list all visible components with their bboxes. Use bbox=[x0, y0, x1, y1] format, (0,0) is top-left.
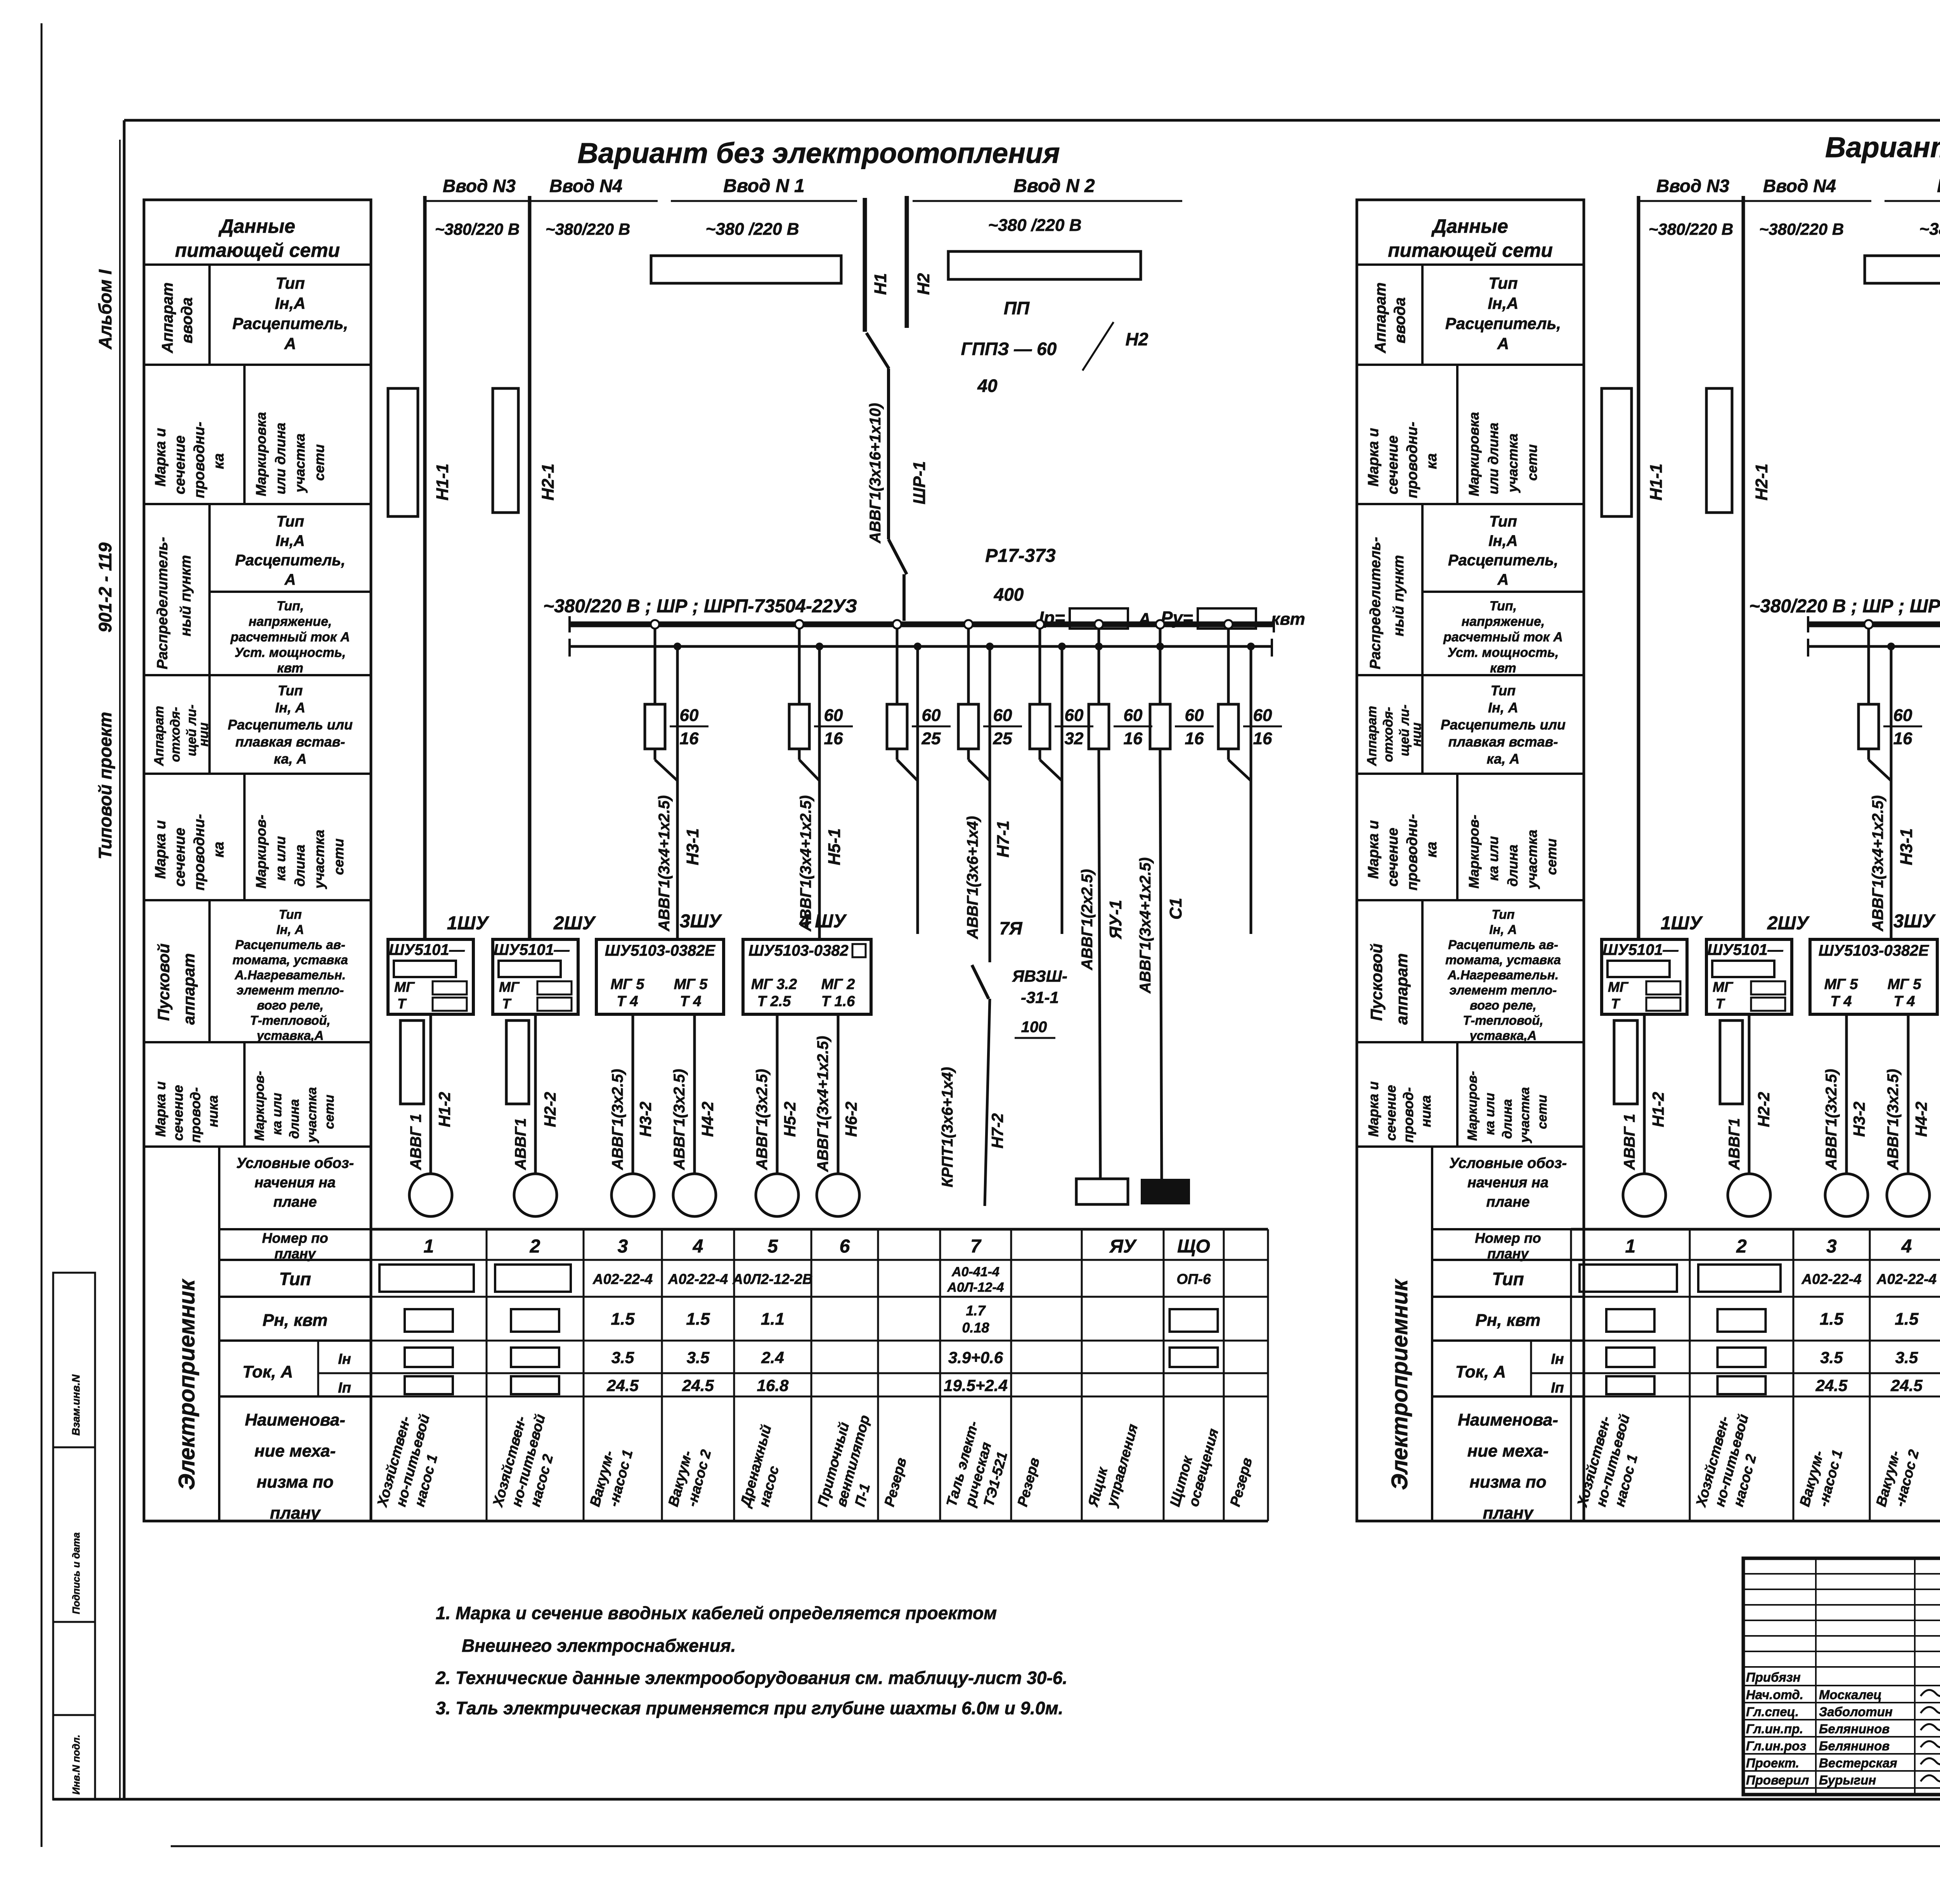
svg-text:Распределитель-: Распределитель- bbox=[1367, 537, 1384, 669]
svg-text:3.5: 3.5 bbox=[1820, 1348, 1843, 1367]
cable labels at motor drops (right half) bbox=[1621, 1036, 1940, 1187]
svg-text:А.Нагревательн.: А.Нагревательн. bbox=[1447, 968, 1559, 982]
wire: feeder drop at x=2990 bbox=[1156, 620, 1164, 704]
svg-text:длина: длина bbox=[287, 1099, 302, 1139]
svg-text:Н7-1: Н7-1 bbox=[994, 821, 1013, 858]
svg-text:Н3-2: Н3-2 bbox=[636, 1102, 655, 1137]
svg-text:начения на: начения на bbox=[1467, 1175, 1549, 1191]
title block signature names bbox=[1746, 1684, 1940, 1787]
svg-text:А02-22-4: А02-22-4 bbox=[592, 1271, 653, 1287]
svg-text:Ввод N 1: Ввод N 1 bbox=[723, 176, 804, 196]
svg-text:Ру=: Ру= bbox=[1161, 608, 1193, 628]
svg-text:уставка,А: уставка,А bbox=[256, 1028, 324, 1043]
svg-text:~380 /220 В: ~380 /220 В bbox=[706, 220, 799, 239]
svg-text:ШУ5101—: ШУ5101— bbox=[389, 941, 465, 958]
svg-text:сети: сети bbox=[331, 839, 346, 875]
svg-text:ка или: ка или bbox=[272, 836, 288, 881]
svg-text:Тип: Тип bbox=[1489, 513, 1517, 530]
svg-text:4: 4 bbox=[1901, 1236, 1912, 1257]
wire: Н1 drop bbox=[865, 198, 890, 332]
block: Электроприемник rows bbox=[1387, 1147, 1584, 1523]
row: Аппарат отходящей линии / Тип Iн,А Расцепитель или плавкая вставка bbox=[144, 675, 371, 774]
svg-text:Пусковой: Пусковой bbox=[154, 944, 173, 1021]
label: fuse rating 60/25 bbox=[983, 706, 1022, 748]
svg-text:ввода: ввода bbox=[178, 297, 196, 343]
svg-text:плану: плану bbox=[270, 1504, 321, 1523]
svg-text:Маркировка: Маркировка bbox=[253, 412, 269, 496]
svg-text:ка или: ка или bbox=[270, 1093, 284, 1135]
svg-text:16: 16 bbox=[1124, 729, 1143, 748]
svg-text:АВВГ1(3х4+1х2.5): АВВГ1(3х4+1х2.5) bbox=[814, 1036, 831, 1172]
svg-text:Iн,А: Iн,А bbox=[275, 532, 305, 549]
title block signature grid bbox=[1743, 1558, 1940, 1795]
row: Распределительный пункт / Тип Iн,А Расцепитель, А / Тип напряжение bbox=[1357, 504, 1584, 676]
svg-text:АВВГ1(2х2.5): АВВГ1(2х2.5) bbox=[1079, 869, 1096, 970]
svg-text:Расцепитель ав-: Расцепитель ав- bbox=[1448, 937, 1558, 952]
svg-text:С1: С1 bbox=[1166, 898, 1185, 920]
svg-text:Маркировка: Маркировка bbox=[1466, 412, 1482, 496]
busbar lower section bbox=[1808, 639, 1940, 657]
svg-text:плану: плану bbox=[1487, 1246, 1529, 1261]
motor M4 bbox=[673, 1174, 716, 1216]
svg-text:сечение: сечение bbox=[172, 828, 188, 887]
svg-text:томата, уставка: томата, уставка bbox=[1445, 953, 1561, 967]
svg-text:АВВГ1(3х2.5): АВВГ1(3х2.5) bbox=[1885, 1069, 1902, 1170]
svg-text:Условные обоз-: Условные обоз- bbox=[1449, 1155, 1567, 1171]
svg-text:1: 1 bbox=[424, 1236, 434, 1257]
svg-text:3: 3 bbox=[618, 1236, 628, 1257]
svg-text:Вариант с электроотоплением: Вариант с электроотоплением bbox=[1825, 131, 1940, 163]
svg-text:Номер по: Номер по bbox=[262, 1230, 328, 1246]
cable rectangle under Ввод N1 bbox=[651, 256, 841, 283]
svg-text:участка: участка bbox=[311, 830, 327, 889]
svg-text:Тип: Тип bbox=[1488, 274, 1517, 292]
svg-text:элемент тепло-: элемент тепло- bbox=[237, 983, 344, 997]
svg-text:ШУ5101—: ШУ5101— bbox=[1602, 941, 1678, 958]
svg-text:Вариант без электроотопления: Вариант без электроотопления bbox=[577, 137, 1060, 169]
svg-text:Маркиров-: Маркиров- bbox=[1465, 1071, 1480, 1141]
svg-text:Ввод N3: Ввод N3 bbox=[443, 176, 516, 196]
svg-text:7Я: 7Я bbox=[999, 918, 1023, 938]
svg-text:ШУ5103-0382: ШУ5103-0382 bbox=[748, 942, 849, 959]
svg-text:Аппарат: Аппарат bbox=[152, 706, 166, 766]
svg-text:Н2: Н2 bbox=[1126, 329, 1148, 349]
svg-text:24.5: 24.5 bbox=[1815, 1376, 1848, 1395]
receiver table Iп row values bbox=[405, 1376, 1008, 1395]
svg-text:МГ: МГ bbox=[1713, 979, 1734, 995]
svg-text:Тип: Тип bbox=[1491, 907, 1514, 922]
label: Ввод N1 bbox=[1885, 176, 1940, 239]
wire: feeder continuation x=2365 bbox=[897, 643, 921, 934]
svg-text:Н3-1: Н3-1 bbox=[683, 828, 702, 865]
svg-text:элемент тепло-: элемент тепло- bbox=[1450, 983, 1557, 997]
svg-text:А0Л2-12-2В: А0Л2-12-2В bbox=[732, 1271, 812, 1287]
svg-text:Iн, А: Iн, А bbox=[1488, 700, 1518, 716]
svg-text:плавкая встав-: плавкая встав- bbox=[1448, 734, 1558, 750]
svg-text:Марка и: Марка и bbox=[152, 428, 169, 487]
svg-text:16: 16 bbox=[1253, 729, 1272, 748]
label: Ввод N1 bbox=[671, 176, 857, 239]
cable mark rect Н1-2 bbox=[400, 1020, 424, 1104]
wire: feeder drop at x=1688 bbox=[651, 620, 659, 704]
svg-text:Взам.инв.N: Взам.инв.N bbox=[70, 1374, 82, 1436]
svg-text:КРПТ1(3х6+1х4): КРПТ1(3х6+1х4) bbox=[939, 1067, 956, 1187]
wire: feeder drop at x=2832 bbox=[1095, 620, 1103, 704]
svg-text:аппарат: аппарат bbox=[1393, 953, 1411, 1025]
svg-text:ника: ника bbox=[205, 1095, 221, 1127]
svg-text:отходя-: отходя- bbox=[168, 707, 183, 762]
svg-text:~380/220 В: ~380/220 В bbox=[546, 220, 630, 238]
svg-text:Тип: Тип bbox=[279, 1269, 311, 1289]
svg-text:АВВГ1: АВВГ1 bbox=[1726, 1118, 1743, 1170]
svg-text:Тип: Тип bbox=[278, 683, 303, 698]
svg-text:А: А bbox=[284, 571, 296, 588]
svg-text:Н7-2: Н7-2 bbox=[988, 1113, 1006, 1149]
busbar ШР upper section bbox=[1808, 616, 1940, 632]
svg-text:сечение: сечение bbox=[172, 435, 188, 494]
svg-text:3. Таль электрическая примен: 3. Таль электрическая применяется при гл… bbox=[436, 1698, 1063, 1718]
svg-text:участка: участка bbox=[1524, 830, 1540, 889]
svg-text:уставка,А: уставка,А bbox=[1469, 1028, 1537, 1043]
row: Аппарат отходящей линии / Тип Iн,А Расцепитель или плавкая вставка bbox=[1357, 675, 1584, 774]
svg-text:провод-: провод- bbox=[1400, 1087, 1416, 1143]
wire: rotated cable labels 7Я drop bbox=[964, 816, 1023, 939]
row: Марка и сечение проводника / Маркировка или длина участка сети bbox=[144, 365, 371, 504]
label: fuse rating 60/16 bbox=[1114, 706, 1152, 748]
svg-text:МГ: МГ bbox=[1608, 979, 1629, 995]
svg-text:плавкая встав-: плавкая встав- bbox=[236, 734, 345, 750]
svg-text:Аппарат: Аппарат bbox=[1365, 706, 1379, 766]
wire: ШР-1 cable drop bbox=[867, 369, 929, 544]
receiver table Тип row values bbox=[1580, 1265, 1940, 1295]
starter box 2ШУ (right) bbox=[1706, 913, 1810, 1014]
svg-text:Н1-1: Н1-1 bbox=[1647, 464, 1666, 501]
cable mark rect Н1-2 (right) bbox=[1614, 1020, 1637, 1104]
svg-text:~380/220 В ; ШР ; ШРП-73504-22: ~380/220 В ; ШР ; ШРП-73504-22УЗ bbox=[1749, 596, 1940, 617]
svg-text:сети: сети bbox=[1535, 1095, 1550, 1129]
svg-text:Iн, А: Iн, А bbox=[275, 700, 305, 716]
cable mark rect Н2-2 (right) bbox=[1720, 1020, 1743, 1104]
wire: feeder drop at x=4816 bbox=[1864, 620, 1873, 704]
svg-text:сети: сети bbox=[311, 444, 327, 481]
svg-text:Электроприемник: Электроприемник bbox=[1387, 1279, 1412, 1490]
svg-text:4: 4 bbox=[693, 1236, 703, 1257]
svg-text:Москалец: Москалец bbox=[1819, 1687, 1882, 1702]
cable rectangle under Ввод N2 bbox=[948, 251, 1141, 279]
row: header "Данные питающей сети" bbox=[144, 215, 371, 265]
svg-text:Тип: Тип bbox=[279, 907, 301, 922]
svg-text:Вестерская: Вестерская bbox=[1819, 1756, 1897, 1770]
svg-text:Проверил: Проверил bbox=[1746, 1773, 1809, 1787]
svg-text:2ШУ: 2ШУ bbox=[1767, 913, 1810, 934]
svg-text:Альбом I: Альбом I bbox=[95, 269, 115, 350]
row: Аппарат ввода / Тип Iн,А Расцепитель, А bbox=[1357, 265, 1584, 365]
svg-text:1.5: 1.5 bbox=[1820, 1310, 1844, 1329]
svg-text:Наименова-: Наименова- bbox=[245, 1410, 345, 1429]
output wires to motors (right half) bbox=[1644, 1014, 1940, 1179]
svg-text:квт: квт bbox=[277, 661, 303, 676]
wire: feeder continuation x=2551 bbox=[968, 643, 994, 962]
motor M5 bbox=[756, 1174, 799, 1216]
svg-text:1.5: 1.5 bbox=[1895, 1310, 1919, 1329]
svg-text:ГППЗ — 60: ГППЗ — 60 bbox=[961, 339, 1057, 359]
switch ЯВЗШ-31-1 100 bbox=[972, 965, 1067, 1206]
svg-text:Пусковой: Пусковой bbox=[1367, 944, 1386, 1021]
svg-text:напряжение,: напряжение, bbox=[249, 614, 332, 629]
svg-text:МГ: МГ bbox=[394, 979, 415, 995]
svg-text:Ввод N4: Ввод N4 bbox=[549, 176, 622, 196]
wire: feeder continuation x=2837 bbox=[1095, 643, 1103, 1179]
svg-text:Внешнего электроснабжения.: Внешнего электроснабжения. bbox=[462, 1635, 736, 1656]
svg-text:МГ: МГ bbox=[499, 979, 520, 995]
svg-text:Марка и: Марка и bbox=[1365, 1081, 1381, 1137]
svg-text:Ввод N4: Ввод N4 bbox=[1763, 176, 1836, 196]
svg-text:длина: длина bbox=[292, 845, 308, 887]
svg-text:60: 60 bbox=[1124, 706, 1143, 725]
svg-text:Н2-1: Н2-1 bbox=[1752, 464, 1771, 501]
svg-text:1.1: 1.1 bbox=[761, 1310, 785, 1329]
motor M4 (right) bbox=[1887, 1174, 1930, 1216]
svg-text:32: 32 bbox=[1065, 729, 1084, 748]
svg-text:Бурыгин: Бурыгин bbox=[1819, 1773, 1876, 1787]
svg-text:25: 25 bbox=[993, 729, 1012, 748]
svg-text:ОП-6: ОП-6 bbox=[1176, 1271, 1211, 1287]
svg-text:проводни-: проводни- bbox=[191, 422, 208, 498]
label: fuse rating 60/32 bbox=[1055, 706, 1093, 748]
svg-text:Н6-2: Н6-2 bbox=[842, 1102, 860, 1137]
fuse 60/25 at x=2312 bbox=[887, 704, 907, 760]
row: Аппарат ввода / Тип Iн,А Расцепитель, А bbox=[144, 265, 371, 365]
fuse 60/16 at x=2990 bbox=[1150, 704, 1170, 760]
svg-text:Тип,: Тип, bbox=[1490, 599, 1517, 613]
wire: feeder continuation x=4874 bbox=[1869, 643, 1895, 939]
svg-text:АВВГ1(3х16+1х10): АВВГ1(3х16+1х10) bbox=[867, 403, 884, 544]
svg-text:Т: Т bbox=[502, 996, 512, 1012]
wire: rotated cable labels ЯУ drop bbox=[1079, 869, 1125, 970]
svg-text:расчетный ток А: расчетный ток А bbox=[1443, 630, 1563, 644]
svg-text:901-2 - 119: 901-2 - 119 bbox=[95, 542, 115, 632]
svg-text:Н2-2: Н2-2 bbox=[541, 1092, 559, 1127]
block: Электроприемник rows bbox=[174, 1147, 371, 1523]
svg-text:Гл.ин.роз: Гл.ин.роз bbox=[1746, 1739, 1806, 1753]
svg-text:Расцепитель или: Расцепитель или bbox=[228, 717, 353, 733]
svg-text:5: 5 bbox=[767, 1236, 778, 1257]
wire: rotated cable labels 4ШУ drop bbox=[797, 795, 844, 932]
motor M1 (right) bbox=[1623, 1174, 1666, 1216]
svg-text:Данные: Данные bbox=[218, 215, 295, 237]
supply-data table frame bbox=[144, 200, 371, 1521]
svg-text:16.8: 16.8 bbox=[757, 1376, 789, 1395]
starter box 3ШУ bbox=[596, 911, 724, 1014]
svg-text:2.4: 2.4 bbox=[761, 1348, 784, 1367]
row: header "Данные питающей сети" bbox=[1357, 215, 1584, 265]
cable rectangle under Ввод N1 bbox=[1865, 256, 1940, 283]
svg-text:Подпись и дата: Подпись и дата bbox=[70, 1532, 82, 1614]
svg-text:Iн: Iн bbox=[338, 1351, 351, 1367]
receiver table mechanism names bbox=[1574, 1412, 1940, 1509]
svg-text:длина: длина bbox=[1505, 845, 1521, 887]
svg-text:Маркиров-: Маркиров- bbox=[1466, 815, 1482, 889]
wire: feeder drop at x=2312 bbox=[893, 620, 901, 704]
fuse 60/16 at x=2060 bbox=[789, 704, 809, 760]
svg-text:нии: нии bbox=[196, 722, 211, 747]
svg-text:Т-тепловой,: Т-тепловой, bbox=[1463, 1013, 1543, 1027]
svg-text:участка: участка bbox=[305, 1087, 319, 1143]
svg-text:Проект.: Проект. bbox=[1746, 1756, 1799, 1770]
svg-text:Гл.спец.: Гл.спец. bbox=[1746, 1705, 1799, 1719]
svg-text:~380 /220 В: ~380 /220 В bbox=[988, 216, 1082, 235]
svg-text:сети: сети bbox=[1524, 444, 1540, 481]
svg-text:Прибязн: Прибязн bbox=[1746, 1670, 1801, 1684]
svg-text:МГ 3.2: МГ 3.2 bbox=[751, 976, 797, 993]
svg-text:низма по: низма по bbox=[1469, 1473, 1546, 1492]
svg-text:Н2: Н2 bbox=[914, 273, 933, 295]
svg-text:Рн, квт: Рн, квт bbox=[1476, 1311, 1541, 1330]
svg-text:ка: ка bbox=[1424, 842, 1440, 858]
svg-text:ника: ника bbox=[1418, 1095, 1434, 1127]
svg-text:24.5: 24.5 bbox=[682, 1376, 714, 1395]
svg-text:АВВГ1(3х2.5): АВВГ1(3х2.5) bbox=[1823, 1069, 1840, 1170]
label: fuse rating 60/16 bbox=[1175, 706, 1214, 748]
svg-text:16: 16 bbox=[1893, 729, 1912, 748]
title block frame bbox=[1743, 1558, 1940, 1795]
svg-text:Марка и: Марка и bbox=[1365, 428, 1382, 487]
svg-text:Iн,А: Iн,А bbox=[1488, 294, 1518, 312]
svg-text:3.5: 3.5 bbox=[1895, 1348, 1918, 1367]
wire: feeder continuation x=2112 bbox=[799, 643, 823, 939]
row: Пусковой аппарат / Тип Iн,А Расцепитель автомата уставка bbox=[1357, 900, 1584, 1043]
svg-text:плану: плану bbox=[274, 1246, 316, 1261]
svg-text:плане: плане bbox=[1486, 1194, 1529, 1210]
starter box 3ШУ (right) bbox=[1810, 911, 1937, 1014]
svg-text:Тип,: Тип, bbox=[277, 599, 304, 613]
row: Пусковой аппарат / Тип Iн,А Расцепитель автомата уставка bbox=[144, 900, 371, 1043]
svg-text:ввода: ввода bbox=[1391, 297, 1408, 343]
svg-text:Т 4: Т 4 bbox=[617, 993, 638, 1010]
wire: feeder continuation x=2737 bbox=[1040, 643, 1066, 934]
svg-text:Iн: Iн bbox=[1551, 1351, 1564, 1367]
note 1 bbox=[436, 1603, 997, 1656]
box ЯУ (left half) bbox=[1076, 1179, 1128, 1204]
svg-text:Т 4: Т 4 bbox=[1894, 993, 1915, 1010]
svg-text:Расцепитель или: Расцепитель или bbox=[1441, 717, 1566, 733]
motor M6 bbox=[817, 1174, 859, 1216]
svg-text:3.9+0.6: 3.9+0.6 bbox=[948, 1348, 1003, 1367]
svg-text:~380/220 В: ~380/220 В bbox=[1649, 220, 1733, 238]
svg-text:60: 60 bbox=[1893, 706, 1912, 725]
svg-text:сети: сети bbox=[322, 1095, 337, 1129]
svg-text:Р17-373: Р17-373 bbox=[985, 546, 1056, 566]
svg-text:Тип: Тип bbox=[1492, 1269, 1524, 1289]
svg-text:Электроприемник: Электроприемник bbox=[174, 1279, 199, 1490]
svg-text:напряжение,: напряжение, bbox=[1462, 614, 1545, 629]
svg-text:Аппарат: Аппарат bbox=[159, 282, 176, 353]
svg-text:А: А bbox=[1497, 334, 1509, 353]
svg-text:Рн, квт: Рн, квт bbox=[263, 1311, 328, 1330]
svg-text:25: 25 bbox=[921, 729, 941, 748]
receiver table grid bbox=[1571, 1229, 1940, 1521]
svg-text:Т 2.5: Т 2.5 bbox=[757, 993, 791, 1010]
left margin rotated captions bbox=[95, 269, 115, 859]
svg-text:ЯУ: ЯУ bbox=[1109, 1236, 1137, 1257]
svg-text:24.5: 24.5 bbox=[1890, 1376, 1923, 1395]
svg-text:ка: ка bbox=[211, 842, 227, 858]
wire: Н2 drop bbox=[907, 196, 933, 328]
svg-text:16: 16 bbox=[680, 729, 699, 748]
svg-text:Расцепитель,: Расцепитель, bbox=[1448, 552, 1558, 569]
svg-text:Н2-2: Н2-2 bbox=[1755, 1092, 1773, 1127]
wire: Ввод N3 feeder line bbox=[425, 176, 530, 939]
svg-text:А.Нагревательн.: А.Нагревательн. bbox=[234, 968, 346, 982]
svg-text:начения на: начения на bbox=[255, 1175, 336, 1191]
svg-text:ЩО: ЩО bbox=[1177, 1236, 1210, 1257]
supply-data table frame bbox=[1357, 200, 1584, 1521]
svg-text:7: 7 bbox=[970, 1236, 982, 1257]
motor M1 bbox=[409, 1174, 452, 1216]
svg-text:расчетный ток А: расчетный ток А bbox=[230, 630, 350, 644]
svg-text:60: 60 bbox=[1065, 706, 1084, 725]
svg-text:Уст. мощность,: Уст. мощность, bbox=[235, 645, 346, 660]
svg-text:Н1: Н1 bbox=[871, 273, 890, 295]
receiver table Iп row values bbox=[1606, 1376, 1940, 1395]
svg-text:60: 60 bbox=[993, 706, 1012, 725]
switch blade after Н1 bbox=[866, 333, 889, 369]
svg-text:3.5: 3.5 bbox=[611, 1348, 634, 1367]
svg-text:сечение: сечение bbox=[170, 1085, 186, 1141]
receiver table mechanism names bbox=[374, 1412, 1255, 1509]
svg-text:АВВГ1(3х4+1х2.5): АВВГ1(3х4+1х2.5) bbox=[1137, 858, 1154, 994]
wire: feeder drop at x=2060 bbox=[795, 620, 804, 704]
cable mark H1-1 rectangle bbox=[388, 388, 452, 516]
svg-text:ЯУ-1: ЯУ-1 bbox=[1106, 900, 1125, 939]
svg-text:Марка и: Марка и bbox=[1365, 820, 1382, 879]
svg-text:16: 16 bbox=[824, 729, 843, 748]
svg-text:Маркиров-: Маркиров- bbox=[252, 1071, 267, 1141]
fuse 60/25 at x=2496 bbox=[958, 704, 979, 760]
wire: feeder continuation x=2992 bbox=[1156, 643, 1164, 1179]
svg-text:питающей сети: питающей сети bbox=[175, 239, 340, 261]
svg-text:МГ 2: МГ 2 bbox=[821, 976, 855, 993]
svg-text:участка: участка bbox=[1517, 1087, 1532, 1143]
fuse 60/16 at x=3166 bbox=[1218, 704, 1238, 760]
box ЩО black (left half) bbox=[1141, 1179, 1190, 1204]
svg-text:А: А bbox=[1138, 610, 1151, 629]
svg-text:сечение: сечение bbox=[1385, 435, 1401, 494]
svg-text:Распределитель-: Распределитель- bbox=[154, 537, 171, 669]
svg-text:~380/220 В: ~380/220 В bbox=[1759, 220, 1844, 238]
svg-text:Ввод N3: Ввод N3 bbox=[1656, 176, 1729, 196]
svg-text:Iн,А: Iн,А bbox=[1488, 532, 1517, 549]
svg-text:60: 60 bbox=[922, 706, 941, 725]
starter box 1ШУ (right) bbox=[1602, 913, 1703, 1014]
label: Ру= box квт bbox=[1161, 608, 1305, 629]
svg-text:ние меха-: ние меха- bbox=[255, 1441, 336, 1460]
svg-text:Н1-2: Н1-2 bbox=[1649, 1092, 1667, 1127]
svg-text:60: 60 bbox=[824, 706, 843, 725]
svg-text:Наименова-: Наименова- bbox=[1458, 1410, 1558, 1429]
svg-text:АВВГ1(3х4+1х2.5): АВВГ1(3х4+1х2.5) bbox=[656, 795, 673, 932]
cable mark H2-1 rectangle bbox=[493, 388, 558, 513]
left margin lower strip cells bbox=[53, 1273, 95, 1799]
receiver table Iн row values bbox=[1606, 1348, 1940, 1367]
svg-text:АВВГ1: АВВГ1 bbox=[512, 1118, 529, 1170]
svg-text:Типовой проект: Типовой проект bbox=[95, 712, 115, 859]
svg-text:вого реле,: вого реле, bbox=[257, 998, 324, 1012]
svg-text:низма по: низма по bbox=[256, 1473, 333, 1492]
motor M3 bbox=[611, 1174, 654, 1216]
svg-text:Н4-2: Н4-2 bbox=[1912, 1102, 1930, 1137]
svg-text:Тип: Тип bbox=[1491, 683, 1516, 698]
